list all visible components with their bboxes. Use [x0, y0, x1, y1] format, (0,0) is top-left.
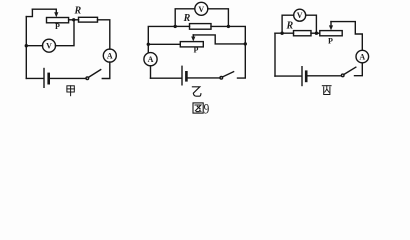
- rheostat slider arrow (甲): [54, 9, 58, 17]
- wire: R row left segment (丙): [275, 32, 294, 34]
- wire: battery to switch (丙): [307, 75, 341, 77]
- wire: rheostat left terminal (乙): [148, 43, 180, 45]
- wire: voltmeter right lead up to junction: [56, 21, 75, 45]
- wire: top horizontal to slider: [32, 8, 56, 10]
- wire: rheostat right end to R: [69, 19, 79, 21]
- node dot on left wire (甲): [25, 44, 28, 47]
- svg-text:P: P: [328, 36, 333, 45]
- ammeter A (丙): [356, 50, 369, 63]
- node dot on ammeter wire (乙): [147, 43, 150, 46]
- wire: battery to switch (甲): [50, 77, 86, 79]
- wire: left vertical: [25, 17, 27, 79]
- voltmeter loop right leg (丙): [306, 15, 317, 33]
- wire: bottom left section (丙): [275, 75, 301, 77]
- label 图 (figure): [193, 103, 203, 113]
- ammeter A (乙): [144, 53, 157, 66]
- wire: R to rheostat (丙): [311, 32, 320, 34]
- svg-text:R: R: [183, 13, 191, 24]
- wire: ammeter top lead up to R row (乙): [148, 26, 175, 52]
- svg-text:P: P: [194, 45, 199, 54]
- switch pivot (丙): [341, 74, 344, 77]
- node junction dot (甲): [72, 18, 75, 21]
- rheostat slider arrow (丙): [329, 22, 333, 31]
- battery long plate (丙): [301, 67, 303, 86]
- wire: ammeter down to bottom right corner: [102, 62, 110, 78]
- battery short plate (乙): [185, 72, 188, 80]
- switch blade (丙): [344, 67, 356, 74]
- battery long plate (甲): [43, 69, 45, 88]
- label 甲: [67, 86, 74, 96]
- resistor R box (乙): [190, 24, 212, 30]
- wire: ammeter bottom lead (乙): [150, 66, 152, 78]
- voltmeter V (甲): [43, 39, 56, 52]
- label 丙: [322, 86, 331, 95]
- wire: battery to switch (乙): [188, 77, 220, 79]
- switch pivot (甲): [86, 77, 89, 80]
- svg-text:V: V: [297, 11, 303, 20]
- battery short plate (甲): [47, 74, 50, 83]
- rheostat box (甲): [47, 18, 69, 23]
- svg-text:R: R: [73, 6, 81, 17]
- rheostat slider arrow (乙): [191, 35, 195, 42]
- switch blade (甲): [88, 70, 100, 78]
- rheostat box (丙): [320, 31, 342, 36]
- wire: slider step to ammeter (丙): [331, 22, 362, 51]
- voltmeter loop left leg (乙): [175, 9, 195, 27]
- wire: R row left segment (乙): [175, 25, 189, 27]
- node dot right vertical (乙): [244, 42, 247, 45]
- wire: left wire to voltmeter: [26, 45, 42, 47]
- node dot V-left leg (丙): [280, 32, 283, 35]
- rheostat box (乙): [180, 42, 203, 47]
- wire: R to right vertical: [98, 20, 110, 49]
- resistor R box (甲): [79, 17, 98, 22]
- svg-text:A: A: [107, 52, 113, 61]
- svg-text:P: P: [55, 22, 60, 31]
- wire: bottom left section (甲): [26, 77, 43, 79]
- node dot V-left leg (乙): [174, 25, 177, 28]
- wire: bottom left section (乙): [151, 77, 182, 79]
- ammeter A (甲): [103, 49, 116, 62]
- svg-text:V: V: [198, 5, 204, 14]
- node dot V-right leg (丙): [315, 32, 318, 35]
- switch blade (乙): [222, 72, 233, 77]
- wire: left vertical (丙): [274, 33, 276, 76]
- svg-text:9: 9: [204, 100, 210, 117]
- wire: R row right segment to right vertical (乙): [211, 26, 245, 44]
- label 乙: [192, 87, 201, 96]
- switch pivot (乙): [220, 77, 223, 80]
- battery long plate (乙): [181, 66, 183, 85]
- voltmeter V (乙): [195, 2, 208, 15]
- svg-text:A: A: [148, 55, 154, 64]
- battery short plate (丙): [305, 72, 308, 81]
- svg-text:R: R: [285, 21, 293, 32]
- wire: ammeter bottom to switch (丙): [355, 63, 363, 76]
- wire: slider zig (乙): [193, 35, 245, 44]
- node dot V-right leg (乙): [227, 25, 230, 28]
- wire: switch to bottom right corner (乙): [238, 44, 246, 78]
- resistor R box (丙): [294, 31, 312, 36]
- voltmeter loop left leg (丙): [282, 15, 294, 33]
- svg-text:V: V: [46, 42, 52, 51]
- voltmeter V (丙): [294, 9, 306, 21]
- wire: top-left step: [26, 9, 32, 16]
- svg-text:A: A: [359, 53, 365, 62]
- voltmeter loop right leg (乙): [208, 9, 229, 27]
